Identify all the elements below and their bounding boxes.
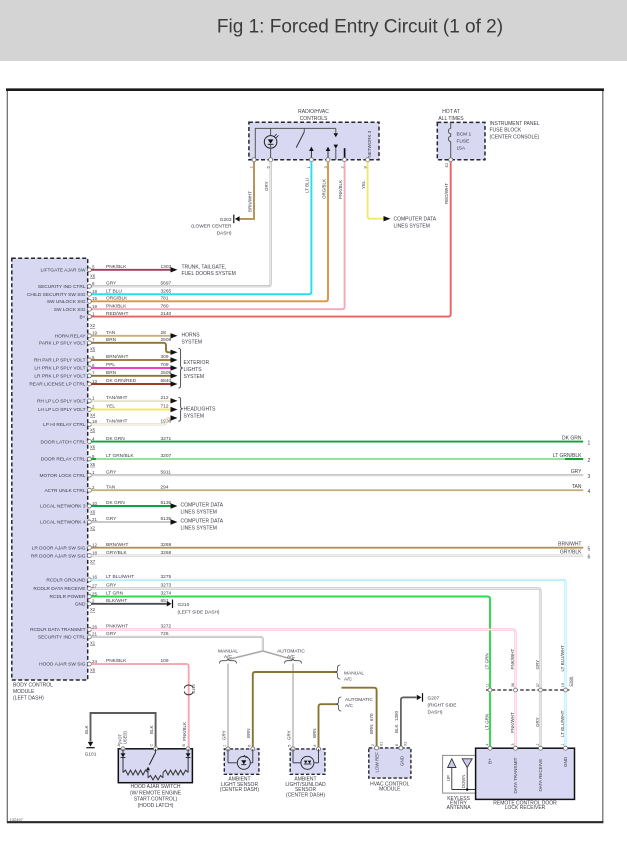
svg-text:X1: X1 bbox=[379, 742, 383, 747]
svg-text:RCDLR POWER: RCDLR POWER bbox=[50, 594, 87, 600]
a/c select split wire gray bbox=[228, 651, 293, 660]
wire SECURITY IND CTRL GRY 726 to a/c select bbox=[38, 631, 169, 641]
svg-text:3: 3 bbox=[588, 474, 591, 480]
illumination lamp in radio bbox=[264, 128, 278, 159]
svg-text:X6: X6 bbox=[90, 273, 96, 278]
svg-text:LT BLU/WHT: LT BLU/WHT bbox=[560, 645, 565, 672]
svg-text:19: 19 bbox=[92, 304, 98, 309]
photodiode in ambient light sensor bbox=[228, 749, 253, 769]
inline connector C306 dashed line bbox=[486, 689, 571, 691]
brace manual a/c (right side) bbox=[335, 665, 340, 679]
svg-text:BLK: BLK bbox=[84, 725, 89, 734]
svg-text:LT BLU: LT BLU bbox=[106, 288, 122, 294]
svg-text:FUSE: FUSE bbox=[457, 138, 470, 144]
svg-text:LOCAL NETWORK 4: LOCAL NETWORK 4 bbox=[40, 520, 86, 526]
svg-text:2: 2 bbox=[536, 743, 540, 745]
svg-text:X2: X2 bbox=[90, 323, 96, 328]
svg-text:LINES SYSTEM: LINES SYSTEM bbox=[394, 224, 430, 230]
svg-text:SECURITY IND CTRL: SECURITY IND CTRL bbox=[38, 284, 86, 290]
svg-text:GRY: GRY bbox=[286, 730, 291, 740]
svg-text:BODY CONTROL: BODY CONTROL bbox=[13, 682, 53, 688]
radio contact pin 1 with arrow bbox=[309, 147, 314, 160]
wire BLK from hvac to ground G207 bbox=[401, 697, 417, 746]
svg-text:MOTOR LOCK CTRL: MOTOR LOCK CTRL bbox=[39, 473, 85, 479]
wire LH LP LO SPLY VOLT YEL 712 bbox=[38, 404, 171, 414]
wire GRY to ambient light/sunload sensor bbox=[292, 664, 294, 747]
svg-text:781: 781 bbox=[161, 296, 169, 302]
svg-text:DASH): DASH) bbox=[428, 709, 443, 715]
svg-text:3: 3 bbox=[511, 743, 515, 745]
svg-text:1350: 1350 bbox=[394, 710, 399, 721]
svg-text:LH LP LO SPLY VOLT: LH LP LO SPLY VOLT bbox=[38, 407, 86, 413]
wire GRY to ambient light sensor bbox=[227, 664, 229, 747]
svg-text:6: 6 bbox=[395, 744, 399, 746]
svg-text:5: 5 bbox=[288, 745, 292, 747]
svg-text:A/C: A/C bbox=[344, 676, 353, 682]
svg-text:RR DOOR AJAR SW SIG: RR DOOR AJAR SW SIG bbox=[31, 553, 86, 559]
svg-text:B: B bbox=[182, 744, 186, 747]
svg-text:RCDLR GROUND: RCDLR GROUND bbox=[46, 578, 86, 584]
svg-text:LOCK RECEIVER: LOCK RECEIVER bbox=[505, 805, 546, 811]
resistor middle in hood switch bbox=[146, 767, 163, 780]
antenna feed wire to receiver bbox=[452, 788, 476, 791]
svg-text:LINES SYSTEM: LINES SYSTEM bbox=[181, 509, 217, 515]
svg-text:ORG/BLK: ORG/BLK bbox=[106, 296, 128, 302]
svg-text:COMPUTER DATA: COMPUTER DATA bbox=[181, 503, 224, 509]
svg-text:2140: 2140 bbox=[161, 311, 172, 317]
wire GND BLK/WHT 651 to ground G210 bbox=[75, 598, 169, 608]
svg-text:MODULE: MODULE bbox=[379, 787, 401, 793]
svg-text:(CENTER DASH): (CENTER DASH) bbox=[220, 787, 260, 793]
diode at hood pin B bbox=[186, 749, 191, 773]
svg-text:RCDLR DATA RECEIVE: RCDLR DATA RECEIVE bbox=[33, 586, 85, 592]
arrow computer data lines system (yellow) bbox=[384, 216, 391, 221]
svg-text:BLK: BLK bbox=[149, 725, 154, 734]
svg-text:HEADLIGHTS: HEADLIGHTS bbox=[184, 406, 217, 412]
svg-text:BCM 1: BCM 1 bbox=[457, 131, 472, 137]
svg-text:BRN: BRN bbox=[369, 724, 374, 734]
svg-text:Fig 1: Forced Entry Circuit (1: Fig 1: Forced Entry Circuit (1 of 2) bbox=[217, 17, 503, 38]
svg-text:BLK: BLK bbox=[394, 724, 399, 733]
svg-text:RH LP LO SPLY VOLT: RH LP LO SPLY VOLT bbox=[37, 399, 86, 405]
keyless entry antenna box bbox=[443, 755, 476, 793]
svg-text:USED): USED) bbox=[123, 731, 128, 745]
svg-text:DASH): DASH) bbox=[217, 231, 232, 237]
svg-text:(LOWER CENTER: (LOWER CENTER bbox=[191, 224, 232, 230]
body control module box (left dash) bbox=[12, 258, 88, 680]
svg-text:ALL TIMES: ALL TIMES bbox=[438, 116, 464, 122]
svg-text:RADIO/HVAC: RADIO/HVAC bbox=[298, 109, 329, 115]
svg-text:X2: X2 bbox=[90, 607, 96, 612]
wire PNK/BLK 780 radio pin 2 to BCM bbox=[91, 162, 344, 310]
wire ORG/BLK 781 radio pin 3 to BCM bbox=[91, 162, 328, 302]
remote control door lock receiver box bbox=[476, 748, 575, 799]
svg-text:5697: 5697 bbox=[161, 281, 172, 287]
wire RCDLR DATA TRANSMIT PNK/WHT 3272 to receiver bbox=[30, 624, 171, 634]
svg-text:LR PRK LP SPLY VOLT: LR PRK LP SPLY VOLT bbox=[34, 374, 85, 380]
hood ajar switch box bbox=[118, 749, 192, 783]
svg-text:C: C bbox=[149, 744, 153, 747]
svg-text:X4: X4 bbox=[90, 413, 96, 418]
wire BRN from sunload sensor to automatic a/c brace bbox=[319, 704, 339, 746]
svg-text:HOOD AJAR SWITCH: HOOD AJAR SWITCH bbox=[130, 784, 180, 790]
svg-text:LIGHTS: LIGHTS bbox=[184, 367, 203, 373]
svg-text:C306: C306 bbox=[568, 676, 573, 686]
vertical wire labels above C306 bbox=[484, 645, 565, 672]
svg-text:LT GRN/BLK: LT GRN/BLK bbox=[553, 453, 582, 459]
svg-text:PNK/BLK: PNK/BLK bbox=[182, 722, 187, 741]
svg-text:A/C: A/C bbox=[287, 654, 296, 660]
svg-text:RH PAR LP SPLY VOLT: RH PAR LP SPLY VOLT bbox=[34, 358, 86, 364]
svg-text:YEL: YEL bbox=[361, 180, 366, 189]
ground G203 bbox=[191, 215, 239, 237]
brace exterior lights system bbox=[178, 348, 183, 388]
svg-text:G210: G210 bbox=[178, 602, 190, 608]
photodiodes in sunload sensor bbox=[293, 749, 319, 769]
svg-text:INSTRUMENT PANEL: INSTRUMENT PANEL bbox=[490, 121, 540, 127]
svg-text:15A: 15A bbox=[457, 145, 466, 151]
wire BRN/WHT from radio pin 7 to ground G203 bbox=[240, 162, 254, 219]
vertical wire labels below C306 bbox=[484, 710, 565, 737]
svg-text:AUTOMATIC: AUTOMATIC bbox=[345, 697, 373, 703]
svg-text:HORNS: HORNS bbox=[182, 333, 201, 339]
svg-text:FUSE BLOCK: FUSE BLOCK bbox=[490, 128, 522, 134]
svg-text:ORG/BLK: ORG/BLK bbox=[321, 179, 326, 199]
antenna up symbol bbox=[446, 759, 456, 790]
svg-text:670: 670 bbox=[369, 713, 374, 721]
radio internal double arrow contact bbox=[334, 128, 339, 159]
svg-text:HORN RELAY: HORN RELAY bbox=[55, 334, 87, 340]
brace headlights system bbox=[178, 397, 183, 421]
svg-text:RED/WHT: RED/WHT bbox=[106, 311, 128, 317]
svg-text:PNK/WHT: PNK/WHT bbox=[510, 712, 515, 733]
svg-text:A: A bbox=[117, 744, 121, 747]
svg-text:ACTR UNLK CTRL: ACTR UNLK CTRL bbox=[44, 488, 85, 494]
svg-text:E2: E2 bbox=[444, 162, 449, 168]
svg-text:G207: G207 bbox=[428, 695, 440, 701]
svg-text:X5: X5 bbox=[90, 462, 96, 467]
svg-text:UP: UP bbox=[446, 775, 451, 781]
fuse BCM 1 15A bbox=[448, 122, 471, 159]
svg-text:(HOOD LATCH): (HOOD LATCH) bbox=[138, 803, 174, 809]
svg-text:GRY: GRY bbox=[264, 181, 269, 191]
radio pin bumps and numbers bbox=[249, 158, 370, 169]
wire SW UNLOCK SIG ORG/BLK 781 bbox=[47, 296, 169, 306]
svg-text:HOT AT: HOT AT bbox=[442, 109, 460, 115]
svg-text:(CENTER DASH): (CENTER DASH) bbox=[286, 792, 326, 798]
svg-text:4: 4 bbox=[485, 743, 489, 745]
wire SECURITY IND CTRL GRY 5697 bbox=[38, 281, 172, 291]
brace manual a/c left bbox=[220, 658, 237, 663]
svg-text:PNK/BLK: PNK/BLK bbox=[338, 180, 343, 199]
ground G210 bbox=[167, 600, 220, 616]
svg-text:LINES SYSTEM: LINES SYSTEM bbox=[181, 525, 217, 531]
resistor right in hood switch bbox=[163, 770, 188, 775]
svg-text:ANTENNA: ANTENNA bbox=[447, 805, 472, 811]
svg-text:LP HI RELAY CTRL: LP HI RELAY CTRL bbox=[43, 422, 86, 428]
svg-text:PNK/BLK: PNK/BLK bbox=[106, 303, 127, 309]
svg-text:CONTROLS: CONTROLS bbox=[300, 116, 328, 122]
wire B+ RED/WHT 2140 bbox=[79, 311, 171, 321]
svg-text:1: 1 bbox=[561, 743, 565, 745]
svg-text:LR DOOR AJAR SW SIG: LR DOOR AJAR SW SIG bbox=[32, 545, 86, 551]
svg-text:19: 19 bbox=[561, 683, 565, 687]
diode at hood pin A bbox=[121, 749, 126, 773]
wire HOOD AJAR SW SIG PNK/BLK 109 to hood switch bbox=[39, 658, 169, 668]
svg-text:DATA TRANSMIT: DATA TRANSMIT bbox=[513, 757, 518, 793]
svg-text:132497: 132497 bbox=[10, 817, 24, 822]
svg-text:LT BLU: LT BLU bbox=[305, 178, 310, 193]
svg-text:REAR LICENSE LP CTRL: REAR LICENSE LP CTRL bbox=[29, 382, 85, 388]
wire PARK LP SPLY VOLT BRN 2509 hooking to exterior lights arrows bbox=[39, 337, 171, 347]
svg-text:18: 18 bbox=[92, 289, 98, 294]
svg-text:11: 11 bbox=[486, 683, 490, 687]
wire SW LOCK SIG PNK/BLK 780 bbox=[54, 303, 169, 313]
svg-text:DOOR LATCH CTRL: DOOR LATCH CTRL bbox=[41, 439, 86, 445]
svg-text:X2: X2 bbox=[90, 526, 96, 531]
ambient light/sunload sensor box bbox=[290, 749, 325, 774]
hood switch blade bbox=[149, 749, 155, 765]
svg-text:SW LOCK SIG: SW LOCK SIG bbox=[54, 307, 86, 313]
svg-text:TRUNK, TAILGATE,: TRUNK, TAILGATE, bbox=[182, 264, 227, 270]
svg-text:DATA RECEIVE: DATA RECEIVE bbox=[538, 759, 543, 792]
svg-text:B+: B+ bbox=[79, 314, 85, 320]
ambient light sensor box bbox=[224, 749, 259, 774]
wire LIFTGATE AJAR SW PNK/BLK 1303 with arrow to trunk/fuel doors system bbox=[41, 264, 172, 274]
brace automatic a/c (right side) bbox=[336, 697, 341, 711]
svg-text:TAN: TAN bbox=[572, 484, 582, 490]
antenna down symbol bbox=[461, 759, 472, 790]
svg-text:(RIGHT SIDE: (RIGHT SIDE bbox=[428, 702, 457, 708]
wire RCDLR DATA RECEIVE GRY 3273 to receiver bbox=[33, 583, 171, 593]
svg-text:X5: X5 bbox=[90, 346, 96, 351]
svg-text:(LEFT SIDE DASH): (LEFT SIDE DASH) bbox=[178, 610, 220, 616]
svg-text:6: 6 bbox=[247, 745, 251, 747]
switch blade in radio bbox=[296, 128, 304, 147]
svg-text:2: 2 bbox=[588, 458, 591, 464]
svg-text:RED/WHT: RED/WHT bbox=[444, 183, 449, 204]
svg-text:G101: G101 bbox=[85, 751, 97, 757]
svg-text:DOOR RELAY CTRL: DOOR RELAY CTRL bbox=[41, 457, 86, 463]
svg-text:GRY: GRY bbox=[571, 469, 582, 475]
svg-text:SYSTEM: SYSTEM bbox=[184, 374, 205, 380]
brace automatic a/c right bbox=[285, 658, 302, 663]
svg-text:EXTERIOR: EXTERIOR bbox=[184, 360, 210, 366]
wire RR DOOR AJAR SW SIG GRY/BLK 3268 to right edge bbox=[31, 550, 583, 560]
radio internal bus wire bbox=[255, 128, 335, 159]
svg-text:BRN/WHT: BRN/WHT bbox=[247, 191, 252, 212]
wire LT BLU 3265 radio pin 1 to BCM bbox=[91, 162, 311, 295]
wire MOTOR LOCK CTRL GRY 5911 to right edge bbox=[39, 469, 583, 479]
svg-text:RCDLR DATA TRANSMIT: RCDLR DATA TRANSMIT bbox=[30, 627, 86, 633]
svg-text:LIFTGATE AJAR SW: LIFTGATE AJAR SW bbox=[41, 268, 86, 274]
wire LR DOOR AJAR SW SIG BRN/WHT 3269 to right edge bbox=[32, 542, 584, 552]
svg-text:MANUAL: MANUAL bbox=[218, 648, 238, 654]
wire RH LP LO SPLY VOLT TAN/WHT 212 bbox=[37, 395, 170, 405]
svg-text:GND: GND bbox=[75, 602, 86, 608]
svg-text:SYSTEM: SYSTEM bbox=[184, 413, 205, 419]
svg-text:780: 780 bbox=[161, 303, 169, 309]
svg-text:1: 1 bbox=[588, 440, 591, 446]
svg-text:CHILD SECURITY SW SIG: CHILD SECURITY SW SIG bbox=[27, 292, 86, 298]
wire BRN from ambient light sensor to manual a/c brace bbox=[253, 672, 337, 747]
receiver pin numbers bbox=[485, 743, 565, 745]
svg-text:15: 15 bbox=[92, 296, 98, 301]
resistor left in hood switch bbox=[123, 770, 148, 775]
svg-text:A/C: A/C bbox=[345, 703, 354, 709]
wire REAR LICENSE LP CTRL DK GRN/RED 6840 bbox=[29, 378, 171, 388]
c306 bumps and pin numbers bbox=[486, 683, 568, 692]
wire LOCAL NETWORK 3 DK GRN 6136 with arrow to computer data lines bbox=[40, 500, 171, 510]
svg-text:LT GRN: LT GRN bbox=[484, 714, 489, 730]
svg-text:DOWN: DOWN bbox=[461, 775, 466, 788]
svg-text:PARK LP SPLY VOLT: PARK LP SPLY VOLT bbox=[39, 341, 86, 347]
wire RED/WHT from fuse to BCM B+ bbox=[91, 162, 450, 317]
wire RCDLR POWER LT GRN 3274 to receiver B+ bbox=[50, 591, 172, 601]
wire RH PAR LP SPLY VOLT BRN/WHT 309 bbox=[34, 354, 171, 364]
svg-text:LT GRN: LT GRN bbox=[484, 653, 489, 669]
svg-text:GRY: GRY bbox=[221, 730, 226, 740]
wire CHILD SECURITY SW SIG LT BLU 3265 bbox=[27, 288, 172, 298]
svg-text:BRN: BRN bbox=[246, 728, 251, 738]
svg-text:START CONTROL): START CONTROL) bbox=[134, 797, 178, 803]
svg-text:BRN/WHT: BRN/WHT bbox=[558, 542, 581, 548]
svg-text:MODULE: MODULE bbox=[13, 689, 35, 695]
wire LH PRK LP SPLY VOLT PPL 709 bbox=[34, 362, 170, 372]
wire BRN to hvac control module bbox=[342, 688, 377, 747]
svg-text:6: 6 bbox=[588, 554, 591, 560]
svg-text:GRY: GRY bbox=[106, 281, 117, 287]
svg-text:4: 4 bbox=[588, 489, 591, 495]
svg-text:B+: B+ bbox=[488, 758, 493, 764]
svg-text:LH PRK LP SPLY VOLT: LH PRK LP SPLY VOLT bbox=[34, 366, 85, 372]
inline connector C115 on hood wire bbox=[184, 683, 196, 694]
wire LOCAL NETWORK 4 GRY 6135 with arrow to computer data lines bbox=[40, 516, 171, 526]
svg-text:MANUAL: MANUAL bbox=[344, 670, 364, 676]
svg-text:HOOD AJAR SW SIG: HOOD AJAR SW SIG bbox=[39, 662, 86, 668]
wire DOOR RELAY CTRL LT GRN/BLK 3207 to right edge bbox=[41, 453, 584, 463]
wire LP HI RELAY CTRL TAN/WHT 1908 hooking up to headlights arrow bbox=[43, 419, 171, 429]
svg-text:(W/ REMOTE ENGINE: (W/ REMOTE ENGINE bbox=[130, 790, 182, 796]
radio contact pin 2 bar bbox=[344, 148, 346, 160]
wire HORN RELAY TAN 28 with arrow to horns system bbox=[55, 330, 171, 340]
svg-text:C115: C115 bbox=[191, 683, 196, 693]
svg-text:GRY: GRY bbox=[535, 660, 540, 670]
svg-text:GRY/BLK: GRY/BLK bbox=[560, 550, 582, 556]
svg-text:LT BLU/WHT: LT BLU/WHT bbox=[560, 710, 565, 737]
wire GRY 5697 radio pin 6 to BCM bbox=[91, 162, 270, 287]
svg-text:X6: X6 bbox=[90, 510, 96, 515]
svg-text:PNK/WHT: PNK/WHT bbox=[510, 649, 515, 670]
svg-text:NETWORK 3: NETWORK 3 bbox=[367, 130, 372, 157]
radio/hvac controls module box bbox=[249, 122, 379, 160]
svg-text:3265: 3265 bbox=[161, 288, 172, 294]
svg-text:SW UNLOCK SIG: SW UNLOCK SIG bbox=[47, 299, 86, 305]
svg-text:2: 2 bbox=[371, 744, 375, 746]
svg-text:X6: X6 bbox=[90, 445, 96, 450]
svg-text:X5: X5 bbox=[90, 427, 96, 432]
svg-text:GND: GND bbox=[563, 756, 568, 767]
wire RCDLR GROUND LT BLU/WHT 3275 to receiver GND bbox=[46, 574, 171, 584]
svg-text:(CENTER CONSOLE): (CENTER CONSOLE) bbox=[490, 134, 540, 140]
wire LR PRK LP SPLY VOLT BRN 2509 bbox=[34, 370, 171, 380]
wire ACTR UNLK CTRL TAN 294 to right edge bbox=[44, 484, 583, 494]
svg-text:COMPUTER DATA: COMPUTER DATA bbox=[394, 217, 437, 223]
svg-text:LOW REF: LOW REF bbox=[375, 752, 380, 773]
svg-text:X6: X6 bbox=[90, 668, 96, 673]
svg-text:LOCAL NETWORK 3: LOCAL NETWORK 3 bbox=[40, 504, 86, 510]
radio contact pin 3 with arrow bbox=[326, 147, 331, 160]
svg-text:SECURITY IND CTRL: SECURITY IND CTRL bbox=[38, 635, 86, 641]
svg-text:GRY: GRY bbox=[535, 717, 540, 727]
hvac control module box bbox=[369, 748, 411, 778]
svg-text:COMPUTER DATA: COMPUTER DATA bbox=[181, 519, 224, 525]
ground G101 bbox=[85, 742, 97, 758]
fuse pin E2 bbox=[449, 158, 453, 162]
svg-text:G203: G203 bbox=[220, 217, 232, 223]
svg-text:GND: GND bbox=[400, 755, 405, 766]
svg-text:X7: X7 bbox=[90, 559, 96, 564]
svg-text:X2: X2 bbox=[404, 742, 408, 747]
wire BLK hood switch to ground G101 bbox=[91, 713, 156, 746]
svg-text:AUTOMATIC: AUTOMATIC bbox=[277, 648, 305, 654]
instrument panel fuse block box bbox=[437, 122, 485, 159]
svg-text:FUEL DOORS SYSTEM: FUEL DOORS SYSTEM bbox=[182, 271, 236, 277]
wire DOOR LATCH CTRL DK GRN 3271 to right edge bbox=[41, 436, 584, 446]
svg-text:BRN: BRN bbox=[312, 728, 317, 738]
svg-text:DK GRN: DK GRN bbox=[562, 436, 582, 442]
svg-text:5: 5 bbox=[588, 547, 591, 553]
header title bar bbox=[0, 0, 627, 61]
svg-text:SYSTEM: SYSTEM bbox=[182, 339, 203, 345]
svg-text:37: 37 bbox=[536, 683, 540, 687]
ground G207 bbox=[417, 693, 457, 715]
svg-text:(LEFT DASH): (LEFT DASH) bbox=[13, 696, 44, 702]
svg-text:6: 6 bbox=[313, 745, 317, 747]
svg-text:36: 36 bbox=[511, 683, 515, 687]
svg-text:X1: X1 bbox=[90, 641, 96, 646]
wire YEL from radio pin 8 to computer data lines bbox=[368, 162, 384, 219]
svg-text:1: 1 bbox=[223, 745, 227, 747]
